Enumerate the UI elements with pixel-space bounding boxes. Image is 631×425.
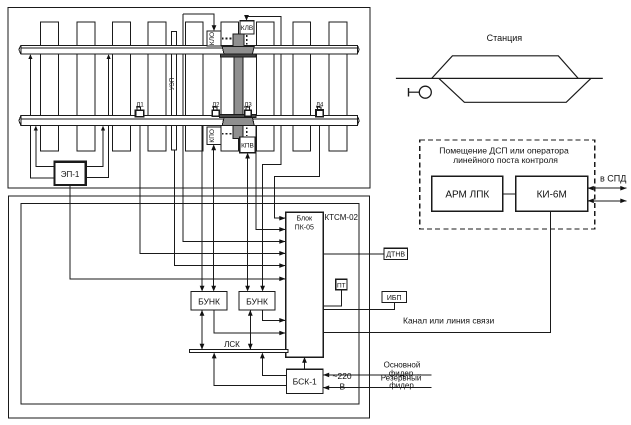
camera KLO [207,31,221,46]
block KI-6M [516,176,588,211]
sensor D3 [245,107,252,116]
svg-text:АРМ ЛПК: АРМ ЛПК [445,189,489,200]
block PT [336,279,347,290]
arrowhead rail bond upper-left [28,54,32,59]
station signal symbol [409,86,432,98]
sleeper 4 [148,22,166,151]
block IBP [382,292,407,303]
svg-text:ЛСК: ЛСК [224,340,240,349]
arrowhead into PK-05 4 [279,251,285,256]
LSK bus bar [190,350,288,353]
block PK-05 [286,212,324,357]
arrowhead into PK-05 7 [279,318,285,323]
arrowhead into KPV [245,153,250,159]
lower wheel flange [219,115,256,118]
sleeper 1 [41,22,59,151]
block BUNK 1 [191,292,227,311]
station track main line [396,77,603,79]
svg-text:ИБП: ИБП [387,295,402,302]
wheelset axle [234,57,243,115]
block DTNV [384,248,408,259]
wire UEP cable [174,150,285,266]
wire BUNK2 output to PK-05 [263,310,286,320]
dotted sight line KPV to wheel [246,127,248,136]
wire KLV feed [246,17,248,20]
svg-text:КПО: КПО [209,129,216,143]
wire EP-1 to lower rail left [36,127,55,167]
wire ARM LPK to KI-6M [503,193,516,195]
wire sensor D2 cable [201,126,203,290]
arrowhead into PK-05 8 [279,331,285,336]
svg-text:фидер: фидер [389,381,414,390]
wire SPD link 1 [588,187,627,189]
block BUNK 2 [239,292,275,311]
sensor D1 [136,107,144,117]
block EP-1 [55,162,86,185]
arrowhead into PK-05 3 [279,239,285,244]
sleeper 9 [329,22,347,151]
svg-text:УЭП: УЭП [170,78,176,90]
sleeper 2 [77,22,95,151]
camera KPO [207,127,221,144]
dotted sight line KLV to wheel [246,35,248,44]
station lower siding [439,78,591,102]
wire KPO cable [213,146,215,290]
svg-text:БУНК: БУНК [198,296,220,306]
svg-text:КЛО: КЛО [209,32,216,45]
sleeper 7 [256,22,274,151]
pedestal UEP (thin vertical post) [172,32,177,150]
svg-text:КПВ: КПВ [241,142,254,149]
block BSK-1 [287,369,324,393]
arrowhead into PK-05 1 [279,216,285,221]
svg-text:КТСМ-02: КТСМ-02 [325,213,359,222]
arrowhead into BUNK2 b [260,286,265,292]
arrowhead SPD1 right [620,186,626,191]
wire communication channel to KI-6M [323,212,551,333]
svg-text:ЭП-1: ЭП-1 [61,170,80,179]
svg-text:БУНК: БУНК [246,296,268,306]
wire BUNK1 output to PK-05 [214,310,286,333]
sleeper 8 [293,22,311,151]
arrowhead BSK-1 into PK-05 [302,357,307,363]
svg-text:в СПД: в СПД [600,174,626,184]
svg-text:КЛВ: КЛВ [241,25,253,32]
wire cable from KLO down to PK-05 arrow 3 [183,14,286,242]
arrowhead into KLO [212,25,217,31]
svg-text:~220: ~220 [333,371,352,381]
arrowhead feeder 1 into BSK-1 [323,373,329,378]
wire EP-1 to upper rail right [86,55,109,177]
upper wheel flange [220,54,256,57]
arrowhead onto LSK from BUNK2 [248,344,253,350]
wire main feeder [323,374,432,376]
arrowhead onto LSK from BSK right [260,353,265,359]
upper wheel [222,47,254,55]
dotted sight line KPO to wheel [222,133,233,135]
wire BSK-1 to PK-05 [304,358,306,370]
arrowhead SPD2 left [588,199,594,204]
arrowhead SPD1 left [588,186,594,191]
wire EP-1 down to PK-05 arrow 6 [70,185,286,279]
wire KLV route [247,17,282,290]
arrowhead BUNK2 up from LSK [248,310,253,316]
wire BUNK2 to LSK bus [249,310,251,350]
wire EP-1 to lower rail right [86,127,103,167]
lower wheel hub [233,125,243,138]
arrowhead rail bond lower-right [101,126,105,131]
sleeper 6 [221,22,239,151]
arrowhead into PK-05 2 [279,227,285,232]
arrowhead feeder 2 into BSK-1 [323,385,329,390]
svg-text:Д3: Д3 [244,103,252,109]
wire BSK-1 to LSK bus right [262,354,286,376]
sensor D2 [212,107,219,116]
sleeper 5 [185,22,203,151]
svg-text:ПК-05: ПК-05 [295,225,314,232]
equipment room inner box [21,204,359,405]
wire KPV cable [247,154,249,290]
camera KPV [240,137,256,153]
wire EP-1 to upper rail left [30,55,54,178]
svg-text:Основной: Основной [384,360,421,369]
arrowhead rail bond lower-left [34,126,38,131]
wire reserve feeder [323,387,432,389]
svg-text:Д2: Д2 [212,103,220,109]
sleeper 3 [113,22,131,151]
svg-text:В: В [340,382,346,392]
wire sensor D3 cable [256,126,286,230]
wire KLO feed horizontal [183,14,214,30]
svg-text:КИ-6М: КИ-6М [537,189,567,200]
arrowhead into PK-05 6 [279,277,285,282]
svg-text:Д1: Д1 [136,103,144,109]
sensor D4 [316,107,323,117]
upper wheel hub [233,34,244,47]
arrowhead into KPO [211,144,216,150]
svg-text:Блок: Блок [296,216,313,223]
arrowhead BUNK1 up from LSK [200,310,205,316]
track section outer box [8,8,370,189]
arrowhead rail bond upper-right [107,54,111,59]
svg-text:ПТ: ПТ [337,282,346,289]
wire PT to PK-05 [323,290,341,306]
wire sensor D1 cable [140,126,286,254]
camera KLV [240,21,254,34]
dashed operator room box [420,140,595,229]
wire IBP to PK-05 [323,303,395,310]
arrowhead into BUNK1 a [200,286,205,292]
svg-text:БСК-1: БСК-1 [293,377,317,387]
block ARM LPK [432,176,503,211]
svg-text:Станция: Станция [487,33,523,43]
arrowhead into PK-05 5 [279,263,285,268]
wire sensor D4 cable [274,126,319,219]
station upper siding [432,56,579,79]
arrowhead onto LSK from BSK left [212,353,217,359]
svg-text:Д4: Д4 [316,102,324,108]
lower rail [19,116,359,126]
upper rail [19,45,359,54]
arrowhead SPD2 right [620,199,626,204]
arrowhead onto LSK from BUNK1 [200,344,205,350]
svg-text:Канал или линия связи: Канал или линия связи [403,316,495,326]
arrowhead into BUNK2 a [245,286,250,292]
wire SPD link 2 [588,200,627,202]
wire PK-05 to DTNV [323,253,384,255]
wire BSK-1 to LSK bus left [214,354,286,386]
dotted sight line KLO to wheel [222,38,233,40]
lower wheel [222,117,254,125]
wire BUNK1 to LSK bus [201,310,203,350]
equipment room outer box [9,196,370,418]
svg-text:ДТНВ: ДТНВ [386,252,405,259]
arrowhead into KLV [244,15,249,21]
svg-text:линейного поста контроля: линейного поста контроля [453,155,558,165]
arrowhead into BUNK1 b [211,286,216,292]
